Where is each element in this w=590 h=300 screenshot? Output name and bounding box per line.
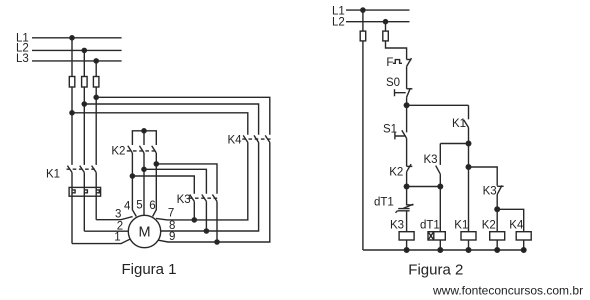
wire dT1 contact to K3 coil xyxy=(406,211,408,232)
wire L2 phase line fig2 xyxy=(346,21,410,23)
wire K3 aux2 to node xyxy=(496,194,498,209)
pushbutton S1 actuator xyxy=(395,132,405,139)
wire K2 pole3 to K3 pole3 xyxy=(156,164,217,194)
wire L1 phase line fig2 xyxy=(346,9,410,11)
contact K3 aux2 NC blade xyxy=(497,186,502,195)
svg-text:5: 5 xyxy=(136,200,142,212)
svg-text:Figura 2: Figura 2 xyxy=(408,261,463,278)
wire L1 phase line fig1 xyxy=(32,37,122,39)
wire branch phase C to K4 pole3 xyxy=(96,97,270,134)
node branch phase A to K4 xyxy=(70,111,74,115)
overload contact F thermal symbol xyxy=(393,60,402,64)
contactor K4 mechanical link dashed xyxy=(242,138,270,140)
wire S1 to K2 contact xyxy=(406,138,408,166)
svg-text:F: F xyxy=(386,57,393,69)
fuse F2 xyxy=(82,77,88,88)
wire K3 aux1 to dT1 coil xyxy=(439,174,441,232)
svg-text:L2: L2 xyxy=(332,17,345,29)
overload contact F NC tick xyxy=(407,59,412,61)
wire K3 pole3 to wire9 xyxy=(216,201,218,242)
svg-text:9: 9 xyxy=(169,231,175,243)
wire motor terminal 8 to K4 pole2 xyxy=(161,142,259,231)
wire phase B drop to K1 pole2 xyxy=(83,50,85,164)
overload contact F NC blade xyxy=(407,58,412,66)
svg-text:K4: K4 xyxy=(228,135,243,147)
svg-text:3: 3 xyxy=(115,209,121,221)
wire K2 pole2 to K3 pole2 xyxy=(144,169,206,194)
node below K2 contact xyxy=(404,184,409,189)
coil K2 xyxy=(490,232,505,240)
pushbutton S0 NC blade xyxy=(407,88,411,97)
contact K3 aux1 NO blade xyxy=(436,166,441,175)
fuse F1 xyxy=(69,77,75,88)
wire L3 phase line fig1 xyxy=(32,60,122,62)
wire K2 pole3 to motor terminal 6 xyxy=(153,153,157,217)
node K2 pole3 branch xyxy=(154,162,158,166)
wire K2 coil to rail xyxy=(496,240,498,250)
wire dT1 coil to rail xyxy=(439,240,441,250)
contactor K2 pole1 blade xyxy=(128,146,133,153)
svg-text:K1: K1 xyxy=(452,118,466,130)
fuse F5 control branch xyxy=(383,31,389,41)
pushbutton S0 actuator xyxy=(395,89,406,96)
node L2 tap junction xyxy=(82,48,86,52)
wire K3 aux1 top xyxy=(439,144,441,165)
node L1 tap junction xyxy=(70,36,74,40)
svg-text:L1: L1 xyxy=(332,5,345,17)
svg-text:6: 6 xyxy=(149,200,155,212)
node K1 branch lower xyxy=(466,165,471,170)
contactor K1 pole1 blade xyxy=(67,166,72,173)
contactor K1 pole3 blade xyxy=(92,166,97,173)
wire K1 coil to rail xyxy=(468,240,470,250)
contact K2 NC blade xyxy=(407,164,412,172)
wire K2 pole2 top xyxy=(143,131,145,145)
contactor K3 pole2 blade xyxy=(202,195,207,202)
contactor K2 mechanical link dashed xyxy=(127,150,157,152)
coil K3 xyxy=(399,232,414,240)
wire F to S0 xyxy=(406,66,408,88)
wire L2 drop to fuse xyxy=(386,22,407,60)
node L2 tap fig2 xyxy=(383,20,387,24)
svg-text:K1: K1 xyxy=(46,169,60,181)
node K2 K4 coil branch xyxy=(495,207,500,212)
wire K3 pole2 to wire8 xyxy=(205,201,207,231)
svg-text:K3: K3 xyxy=(390,220,404,232)
wire node to K3 aux2 branch xyxy=(469,167,498,186)
contactor K4 pole2 blade xyxy=(254,135,259,142)
fuse F4 left rail xyxy=(360,31,366,41)
node rail below K3 coil xyxy=(404,248,409,253)
node L1 tap fig2 xyxy=(361,8,365,12)
fuse F3 xyxy=(93,77,99,88)
wire node to S1 xyxy=(406,105,408,132)
node rail below K4 coil xyxy=(521,248,526,253)
wire K2 contact to node xyxy=(406,172,408,187)
timed contact dT1 NC tick xyxy=(407,204,414,206)
svg-text:2: 2 xyxy=(117,220,123,232)
contactor K2 pole2 blade xyxy=(139,146,144,153)
svg-text:K2: K2 xyxy=(389,166,403,178)
coil K4 xyxy=(516,232,531,240)
wire motor terminal 2 lead xyxy=(84,230,128,232)
node rail below K2 coil xyxy=(495,248,500,253)
wire K1 pole1 to overload xyxy=(71,172,73,243)
node K3 aux bottom xyxy=(438,184,443,189)
node K2 bridge junction xyxy=(142,129,146,133)
wire K1 pole2 to overload xyxy=(83,172,85,231)
wire node to K2 coil xyxy=(496,209,498,231)
wire motor terminal 7 to K4 pole1 xyxy=(156,142,248,220)
svg-text:L3: L3 xyxy=(16,53,29,65)
contactor K1 mechanical link dashed xyxy=(67,168,98,170)
node K2 pole2 branch xyxy=(142,167,146,171)
pushbutton S0 NC tick xyxy=(407,88,413,90)
contactor K1 pole2 blade xyxy=(80,166,85,173)
svg-text:K3: K3 xyxy=(483,186,497,198)
svg-text:K2: K2 xyxy=(111,146,125,158)
wire branch phase B to K4 pole2 xyxy=(84,104,258,135)
svg-text:Figura 1: Figura 1 xyxy=(122,261,177,278)
wire L2 phase line fig1 xyxy=(32,49,122,51)
wire K2 pole2 to motor terminal 5 xyxy=(143,153,145,215)
contactor K4 pole1 blade xyxy=(243,135,248,142)
node L3 tap junction xyxy=(94,59,98,63)
svg-text:4: 4 xyxy=(124,200,131,212)
node K1 branch upper xyxy=(466,141,471,146)
contactor K4 pole3 blade xyxy=(265,135,270,142)
svg-text:K3: K3 xyxy=(424,154,438,166)
contactor K3 pole1 blade xyxy=(190,195,195,202)
contact K2 NC tick xyxy=(407,165,413,167)
wire node to K3 aux1 xyxy=(440,143,468,145)
svg-text:K2: K2 xyxy=(482,220,496,232)
svg-text:S1: S1 xyxy=(383,124,397,136)
contact K1 NO blade xyxy=(464,120,469,128)
wire K1 branch to K1 coil xyxy=(468,167,470,232)
overload heater element pole2 xyxy=(84,190,87,193)
node branch phase B to K4 xyxy=(82,102,86,106)
wire K1 contact to node xyxy=(468,128,470,144)
wire bottom return rail fig2 xyxy=(363,249,524,251)
svg-text:K4: K4 xyxy=(509,220,524,232)
svg-text:S0: S0 xyxy=(386,77,400,89)
wire phase A drop to K1 pole1 xyxy=(71,38,73,165)
wire motor terminal 3 lead xyxy=(96,217,132,220)
wire node to dT1 coil branch xyxy=(407,186,441,188)
wire node to dT1 contact xyxy=(406,187,408,206)
wire branch phase A to K4 pole1 xyxy=(72,113,248,135)
contactor K3 mechanical link dashed xyxy=(189,197,218,199)
wire K3 pole1 to wire7 xyxy=(193,201,195,220)
motor M circle xyxy=(128,215,160,247)
svg-text:7: 7 xyxy=(168,207,174,219)
node branch phase C to K4 xyxy=(94,95,98,99)
node K3 pole2 on wire8 xyxy=(204,229,208,233)
coil K1 xyxy=(461,232,476,240)
contact K3 aux2 NC tick xyxy=(497,185,503,187)
contactor K2 pole3 blade xyxy=(152,146,157,153)
pushbutton S1 NO blade xyxy=(402,130,407,138)
timed contact dT1 delay symbol xyxy=(396,209,410,213)
wire S0 to node xyxy=(406,97,408,105)
wire node to K1 branch xyxy=(407,104,469,106)
node rail below dT1 coil xyxy=(438,248,443,253)
wire K2 pole1 to motor terminal 4 xyxy=(132,153,136,217)
svg-text:1: 1 xyxy=(114,231,120,243)
svg-text:dT1: dT1 xyxy=(420,220,440,232)
overload relay box xyxy=(69,187,101,196)
svg-text:K3: K3 xyxy=(177,194,191,206)
wire phase C drop to K1 pole3 xyxy=(95,61,97,165)
node after S0 xyxy=(404,103,409,108)
contactor K2 star bridge wire xyxy=(132,131,156,145)
overload heater element pole1 xyxy=(72,190,75,193)
node K3 pole1 on wire7 xyxy=(192,218,196,222)
wire K1 branch mid xyxy=(468,144,470,168)
node K3 pole3 on wire9 xyxy=(215,240,219,244)
wire node to K4 coil xyxy=(497,209,524,231)
timed contact dT1 NC blade xyxy=(403,204,413,208)
wire motor terminal 1 lead xyxy=(72,239,130,244)
svg-text:dT1: dT1 xyxy=(374,197,394,209)
overload heater element pole3 xyxy=(96,190,99,193)
node rail below K1 coil xyxy=(466,248,471,253)
svg-text:M: M xyxy=(138,225,150,241)
svg-text:www.fonteconcursos.com.br: www.fonteconcursos.com.br xyxy=(432,284,583,298)
wire K2 pole1 to K3 pole1 xyxy=(132,176,194,194)
coil dT1 timer element divider xyxy=(428,232,434,240)
contactor K3 pole3 blade xyxy=(212,195,217,202)
svg-text:K1: K1 xyxy=(454,220,468,232)
wire motor terminal 9 to K4 pole3 xyxy=(158,142,270,242)
wire K1 branch drop xyxy=(468,105,470,119)
node K2 pole1 branch xyxy=(130,174,134,178)
wire left rail fig2 xyxy=(362,10,364,250)
wire K3 coil to rail xyxy=(406,240,408,250)
wire K4 coil to rail xyxy=(523,240,525,250)
wire K1 pole3 to overload xyxy=(95,172,97,219)
coil dT1 timer xyxy=(428,232,445,240)
